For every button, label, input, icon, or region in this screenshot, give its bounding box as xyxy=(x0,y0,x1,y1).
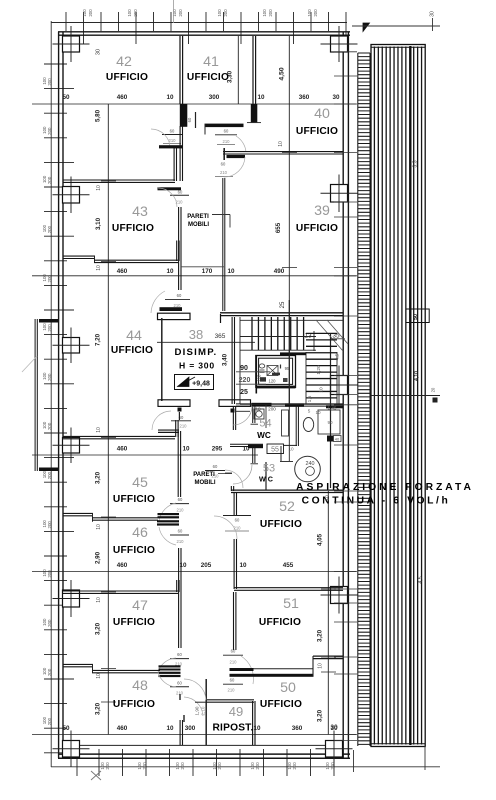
door room 44 arc xyxy=(151,291,165,313)
left dimension tick 18 xyxy=(44,481,67,483)
door jamb room 42 xyxy=(162,134,182,136)
dimension chain line left xyxy=(50,21,52,767)
top dimension tick 5 xyxy=(135,12,137,44)
svg-text:10: 10 xyxy=(96,427,102,433)
svg-text:1,5: 1,5 xyxy=(307,395,313,402)
svg-text:UFFICIO: UFFICIO xyxy=(260,519,302,530)
svg-text:10: 10 xyxy=(96,185,102,191)
svg-text:UFFICIO: UFFICIO xyxy=(296,223,338,234)
dimension row line y452 xyxy=(32,454,258,456)
wall room 43/44 right part xyxy=(94,260,178,262)
svg-text:3,3: 3,3 xyxy=(413,160,419,167)
hinge block right xyxy=(231,409,235,413)
thick bar under wall 42/43 end xyxy=(158,187,182,190)
door room 39 arc xyxy=(224,157,245,177)
dimension row line y568 xyxy=(32,571,356,573)
svg-text:60: 60 xyxy=(213,464,218,469)
wall room 47/48 left part xyxy=(63,664,93,666)
outer wall right xyxy=(343,32,348,758)
door room 52 jamb upper xyxy=(223,515,251,517)
elevator heavy left edge xyxy=(255,356,257,394)
interior chain x289 xyxy=(288,36,290,461)
svg-text:200: 200 xyxy=(47,570,52,578)
svg-text:54: 54 xyxy=(259,418,271,430)
svg-text:200: 200 xyxy=(178,9,183,17)
pillar top-right xyxy=(331,36,348,52)
svg-text:3,20: 3,20 xyxy=(95,622,102,635)
svg-text:60: 60 xyxy=(187,117,192,122)
pillar top-left xyxy=(63,36,80,52)
svg-text:200: 200 xyxy=(105,762,110,770)
thick pocket wall 45/46 right end xyxy=(158,513,180,515)
svg-text:100: 100 xyxy=(82,9,87,17)
stair right flight treads xyxy=(306,333,337,398)
bottom-left cross scribble xyxy=(91,771,101,780)
left dimension tick 4 xyxy=(44,137,67,139)
stair upper flight boundary lines xyxy=(240,319,343,321)
svg-text:50: 50 xyxy=(413,314,419,320)
svg-text:38: 38 xyxy=(189,327,203,342)
top dimension tick 9 xyxy=(205,12,207,31)
wall y316 left step xyxy=(220,314,222,323)
rooms right wall x179.5 mid xyxy=(178,431,180,497)
tick bottom right of hatch xyxy=(424,746,426,770)
door room 50 arc xyxy=(241,656,254,684)
left pencil mark xyxy=(22,356,37,372)
svg-text:UFFICIO: UFFICIO xyxy=(113,494,155,505)
left dimension tick 1 xyxy=(44,63,67,65)
svg-text:90: 90 xyxy=(327,420,333,425)
WC wall y445 right part xyxy=(284,444,298,446)
wall 43/44 right end stub xyxy=(177,241,179,262)
rooms right wall x179.5 from 43 down xyxy=(179,207,181,290)
top dimension tick 12 xyxy=(258,12,260,31)
svg-text:170: 170 xyxy=(202,268,213,275)
svg-text:210: 210 xyxy=(223,139,231,144)
wall room 43/44 left part xyxy=(63,256,95,258)
partition wall room 39 (pareti mobili) xyxy=(223,178,225,311)
WC 54 right fixture rect xyxy=(318,410,340,434)
left dimension tick 20 xyxy=(44,530,74,532)
door room 42 arc xyxy=(151,129,170,148)
door room 52 arc xyxy=(214,516,237,539)
room 49 top wall left ext xyxy=(195,701,206,703)
WC 53 inner door jamb xyxy=(280,461,293,463)
chase black box xyxy=(327,436,334,442)
stair hall wall y316 already; stair treads upper flight xyxy=(252,317,304,350)
elevator leader lines xyxy=(236,371,270,373)
room 49 top wall xyxy=(206,700,254,702)
door room 48 arc xyxy=(158,672,176,687)
WC 52 left wall step up xyxy=(231,486,233,491)
svg-text:10: 10 xyxy=(166,268,174,275)
left dimension tick 3 xyxy=(44,112,67,114)
left dimension tick 14 xyxy=(44,383,74,385)
svg-text:10: 10 xyxy=(227,268,235,275)
left dimension tick 11 xyxy=(44,309,74,311)
hatch strip outline xyxy=(371,45,425,747)
svg-text:200: 200 xyxy=(313,9,318,17)
top dimension tick 17 xyxy=(345,12,347,44)
outer wall bottom inner line xyxy=(63,744,343,746)
svg-text:240: 240 xyxy=(306,461,315,467)
svg-text:MOBILI: MOBILI xyxy=(188,222,209,228)
svg-text:655: 655 xyxy=(275,222,282,233)
svg-text:200: 200 xyxy=(47,521,52,529)
hatch strip top border inner xyxy=(371,46,425,48)
interior chain x238 room41 xyxy=(237,36,239,104)
hatch strip heavy inner line xyxy=(409,46,411,745)
pillar right y185 xyxy=(331,185,348,203)
svg-text:90: 90 xyxy=(240,365,248,372)
dimension row line y276 xyxy=(32,275,356,277)
top dimension tick 10 xyxy=(223,12,225,31)
svg-text:10: 10 xyxy=(257,94,265,101)
svg-text:200: 200 xyxy=(47,324,52,332)
WC 54 shower rect xyxy=(282,410,289,436)
dimension row line y103 xyxy=(32,103,356,105)
door room 45 arc xyxy=(159,503,176,521)
WC 54 toilet xyxy=(303,418,313,432)
svg-text:200: 200 xyxy=(47,225,52,233)
pillar right y587 xyxy=(331,587,348,604)
corridor right wall below stub xyxy=(233,407,235,431)
left dimension tick 19 xyxy=(44,506,67,508)
WC door bar 2 xyxy=(285,403,304,406)
pillar left y338 xyxy=(63,338,80,354)
hall L-wall horizontal xyxy=(158,430,179,432)
wall room 47/48 right part xyxy=(92,670,160,672)
svg-text:200: 200 xyxy=(47,176,52,184)
bottom dimension tick 4 xyxy=(145,749,147,776)
wall 45/46 jog xyxy=(92,514,94,522)
door room 48 arc xyxy=(184,697,203,716)
wall room 42/43 stub xyxy=(159,145,183,148)
svg-text:ASPIRAZIONE FORZATA: ASPIRAZIONE FORZATA xyxy=(296,482,474,493)
interior chain x328 xyxy=(327,491,329,735)
svg-text:UFFICIO: UFFICIO xyxy=(113,617,155,628)
svg-text:4,05: 4,05 xyxy=(317,533,324,546)
svg-text:10: 10 xyxy=(318,663,324,669)
bottom dimension tick 8 xyxy=(239,749,241,776)
wall room 42/43 jog vertical xyxy=(174,147,176,181)
left dimension tick 29 xyxy=(44,752,74,754)
svg-text:3,20: 3,20 xyxy=(317,709,324,722)
wall 41/40 lower thick piece xyxy=(251,104,257,122)
svg-text:52: 52 xyxy=(279,499,295,515)
bottom dimension tick 12 xyxy=(333,749,335,776)
pillar bottom-left xyxy=(63,741,80,758)
elevator outer box xyxy=(256,356,296,388)
top dimension tick 11 xyxy=(240,12,242,44)
wall 44/45 right stub xyxy=(176,420,178,437)
svg-text:55: 55 xyxy=(271,447,279,454)
left dimension tick 17 xyxy=(44,457,74,459)
hall right door jamb xyxy=(236,410,250,412)
top dimension tick 7 xyxy=(170,12,172,31)
svg-text:60: 60 xyxy=(231,649,236,654)
svg-text:MOBILI: MOBILI xyxy=(195,480,216,486)
top dimension tick 1 xyxy=(65,12,67,31)
WC 54 door jamb xyxy=(251,423,259,425)
svg-text:25: 25 xyxy=(280,301,286,308)
outer wall top xyxy=(58,32,350,35)
left dimension tick 21 xyxy=(44,555,67,557)
svg-text:10: 10 xyxy=(96,673,102,679)
svg-text:30: 30 xyxy=(332,94,340,101)
svg-text:460: 460 xyxy=(117,268,128,275)
hatch label 50 box xyxy=(406,309,429,323)
section flag at top of ladder strip xyxy=(363,23,370,32)
hatch strip vertical lines xyxy=(374,47,421,745)
top dimension tick 16 xyxy=(328,12,330,31)
left dimension tick 10 xyxy=(44,284,67,286)
svg-text:10: 10 xyxy=(96,597,102,603)
left dimension tick 9 xyxy=(44,260,67,262)
bottom dimension tick 9 xyxy=(263,749,265,776)
wall between rooms 41 and 40 xyxy=(253,36,256,104)
svg-text:7,20: 7,20 xyxy=(95,333,102,346)
WC wall y491 top of room 52 xyxy=(231,490,343,492)
svg-text:60: 60 xyxy=(178,497,183,502)
svg-text:43: 43 xyxy=(132,204,148,220)
wall 50/51 right part xyxy=(313,656,343,659)
hall door arc xyxy=(152,411,171,430)
hatch strip bottom border inner xyxy=(371,743,425,745)
svg-text:10: 10 xyxy=(288,447,294,452)
svg-text:60: 60 xyxy=(177,681,182,686)
elevator inner details xyxy=(259,364,265,368)
thick wall pocket at corridor widening upper xyxy=(160,307,183,311)
svg-text:60: 60 xyxy=(178,190,183,195)
svg-text:300: 300 xyxy=(209,94,220,101)
bottom dimension tick 3 xyxy=(122,749,124,776)
svg-text:205: 205 xyxy=(201,562,212,569)
svg-text:UFFICIO: UFFICIO xyxy=(260,699,302,710)
wall x235 room 51 left xyxy=(234,592,236,650)
svg-text:CONTINUA - 6 VOL/h: CONTINUA - 6 VOL/h xyxy=(302,496,451,507)
stair left boundary xyxy=(239,317,241,404)
svg-text:210: 210 xyxy=(177,539,185,544)
svg-text:49: 49 xyxy=(229,704,243,719)
svg-text:10: 10 xyxy=(96,265,102,271)
svg-text:UFFICIO: UFFICIO xyxy=(113,545,155,556)
pillar left y438 xyxy=(63,438,80,454)
svg-text:42: 42 xyxy=(116,54,132,70)
WC 53 shower circle xyxy=(295,456,321,482)
svg-text:60: 60 xyxy=(178,529,183,534)
wall room 44/45 xyxy=(63,436,175,438)
svg-text:490: 490 xyxy=(274,268,285,275)
left dimension tick 25 xyxy=(44,653,67,655)
jamb at bottom of wall 41/40 xyxy=(247,122,261,124)
corridor left wall x181 upper xyxy=(180,126,182,181)
line under 38 row xyxy=(157,341,255,343)
svg-text:4,5: 4,5 xyxy=(418,576,424,583)
svg-text:40: 40 xyxy=(335,437,340,442)
WC wall x253 vertical xyxy=(253,406,255,423)
door room 43 arc xyxy=(158,188,177,207)
wall room 43/44 jog xyxy=(94,256,96,263)
svg-text:460: 460 xyxy=(117,725,128,732)
svg-text:60: 60 xyxy=(221,162,226,167)
svg-text:50: 50 xyxy=(62,94,70,101)
svg-text:DISIMP.: DISIMP. xyxy=(175,347,218,358)
corridor end door leaf marks xyxy=(179,694,181,700)
pillar right y376 xyxy=(331,376,348,395)
washbasin room 54 xyxy=(254,409,264,419)
DISIMP bottom stub left xyxy=(158,400,190,407)
svg-text:48: 48 xyxy=(132,678,148,694)
svg-text:295: 295 xyxy=(212,446,223,453)
right chase vertical line xyxy=(330,333,332,488)
top dimension tick 14 xyxy=(293,12,295,44)
hall boundary line y267 xyxy=(181,266,224,268)
svg-text:100: 100 xyxy=(262,9,267,17)
svg-text:360: 360 xyxy=(299,94,310,101)
pillar left y187 xyxy=(63,187,80,204)
top dimension tick 8 xyxy=(188,12,190,44)
corridor top door leaf xyxy=(195,112,197,128)
pareti mobili leader upper xyxy=(212,214,230,216)
dimension chain line bottom xyxy=(51,766,440,768)
wall between rooms 42 and 41 xyxy=(180,36,183,104)
svg-text:25: 25 xyxy=(240,389,248,396)
svg-text:200: 200 xyxy=(180,762,185,770)
outlined stub at corridor widening xyxy=(158,313,191,319)
dimension chain line top xyxy=(51,22,347,24)
wall room 45/46 right part xyxy=(92,518,158,520)
WC 54 partition line xyxy=(265,405,267,428)
quota box +9,48 xyxy=(175,375,214,390)
svg-text:UFFICIO: UFFICIO xyxy=(259,617,301,628)
wall 47/48 jog xyxy=(92,665,94,673)
left dimension tick 13 xyxy=(44,358,67,360)
svg-text:UFFICIO: UFFICIO xyxy=(113,699,155,710)
svg-text:39: 39 xyxy=(314,203,330,219)
svg-text:UFFICIO: UFFICIO xyxy=(106,72,148,83)
svg-text:200: 200 xyxy=(223,9,228,17)
wall x235 room 52 left lower xyxy=(234,539,236,589)
svg-text:H = 300: H = 300 xyxy=(179,361,215,371)
svg-text:4,10: 4,10 xyxy=(414,371,420,381)
top dimension tick 13 xyxy=(275,12,277,31)
svg-text:20: 20 xyxy=(431,387,436,392)
door room 49 arc xyxy=(184,679,206,700)
svg-text:4,5: 4,5 xyxy=(335,353,340,360)
bottom dimension tick 6 xyxy=(192,749,194,776)
svg-text:100: 100 xyxy=(217,9,222,17)
svg-text:50: 50 xyxy=(280,680,296,696)
left dimension tick 26 xyxy=(44,678,74,680)
svg-text:51: 51 xyxy=(283,596,299,612)
left bracket top bar xyxy=(39,319,59,323)
svg-text:220: 220 xyxy=(239,377,251,384)
wall room 41 bottom segment thick xyxy=(205,124,244,128)
corridor transverse partition xyxy=(225,472,232,474)
door D2 arc xyxy=(236,136,246,152)
left dimension tick 12 xyxy=(44,334,67,336)
svg-text:100: 100 xyxy=(127,9,132,17)
DISIMP right wall x233 xyxy=(232,317,234,404)
tick bottom right of ladder xyxy=(353,750,355,772)
outer wall bottom xyxy=(58,754,350,758)
svg-text:200: 200 xyxy=(47,373,52,381)
vertical line to sheet top xyxy=(173,0,175,23)
pillar left y590 xyxy=(63,590,80,607)
thick bar under wall 40/39 left end xyxy=(227,155,246,158)
svg-text:30: 30 xyxy=(96,49,102,55)
WC 53 wall stub x253 xyxy=(253,446,255,463)
corridor transverse door arc xyxy=(225,470,243,488)
WC wall y445 xyxy=(230,444,263,446)
svg-text:3,20: 3,20 xyxy=(95,702,102,715)
svg-text:10: 10 xyxy=(278,141,284,147)
bottom dimension tick 7 xyxy=(216,749,218,776)
door room 51 jamb xyxy=(223,654,243,656)
svg-text:200: 200 xyxy=(88,9,93,17)
thick pocket wall 47/48 right end xyxy=(159,665,181,667)
bottom dimension tick 11 xyxy=(310,749,312,776)
svg-text:44: 44 xyxy=(126,328,142,344)
svg-text:200: 200 xyxy=(268,407,276,412)
svg-text:4,50: 4,50 xyxy=(279,67,286,80)
svg-text:53: 53 xyxy=(263,463,275,475)
svg-text:60: 60 xyxy=(235,518,240,523)
wall x235 room 52 left upper xyxy=(234,492,236,515)
door room 46 arc xyxy=(159,527,176,545)
svg-text:200: 200 xyxy=(255,762,260,770)
svg-text:120: 120 xyxy=(269,379,277,384)
bottom dimension tick 10 xyxy=(286,749,288,776)
elevator inner box xyxy=(259,358,293,384)
svg-text:10: 10 xyxy=(315,410,321,415)
hall door leaf vertical xyxy=(178,412,180,420)
top dimension tick 3 xyxy=(100,12,102,31)
WC 54 door arc xyxy=(233,406,252,425)
left dimension tick 27 xyxy=(44,703,67,705)
svg-text:1,45: 1,45 xyxy=(328,406,337,411)
DISIMP left wall xyxy=(161,318,163,401)
svg-text:+9,48: +9,48 xyxy=(192,381,210,388)
stair diagonal cut lines xyxy=(316,320,343,351)
interior chain x108 xyxy=(107,104,109,735)
svg-text:200: 200 xyxy=(47,127,52,135)
pillar bottom-right xyxy=(326,741,343,758)
svg-text:360: 360 xyxy=(292,725,303,732)
wall room 42/43 horizontal xyxy=(63,180,175,182)
svg-text:60: 60 xyxy=(230,678,235,683)
left dimension tick 24 xyxy=(44,629,67,631)
svg-text:UFFICIO: UFFICIO xyxy=(111,345,153,356)
door room 39 jamb upper xyxy=(223,148,225,160)
svg-text:RIPOST.: RIPOST. xyxy=(212,723,253,734)
svg-text:100: 100 xyxy=(172,9,177,17)
stair right flight boundaries xyxy=(305,352,307,404)
stair exit door bar xyxy=(252,403,272,407)
WC y445 bar xyxy=(248,445,263,449)
svg-text:200: 200 xyxy=(268,9,273,17)
WC top wall y405 xyxy=(236,404,343,406)
top dimension tick 15 xyxy=(310,12,312,31)
ladder hatch column (insulation strip) xyxy=(358,53,370,746)
svg-text:3,10: 3,10 xyxy=(95,217,102,230)
svg-text:455: 455 xyxy=(283,562,294,569)
room 49 left wall xyxy=(205,679,207,745)
wall room 52/51 y589 xyxy=(234,588,343,591)
svg-text:1,90: 1,90 xyxy=(195,706,200,715)
WC 55 box xyxy=(267,444,284,454)
